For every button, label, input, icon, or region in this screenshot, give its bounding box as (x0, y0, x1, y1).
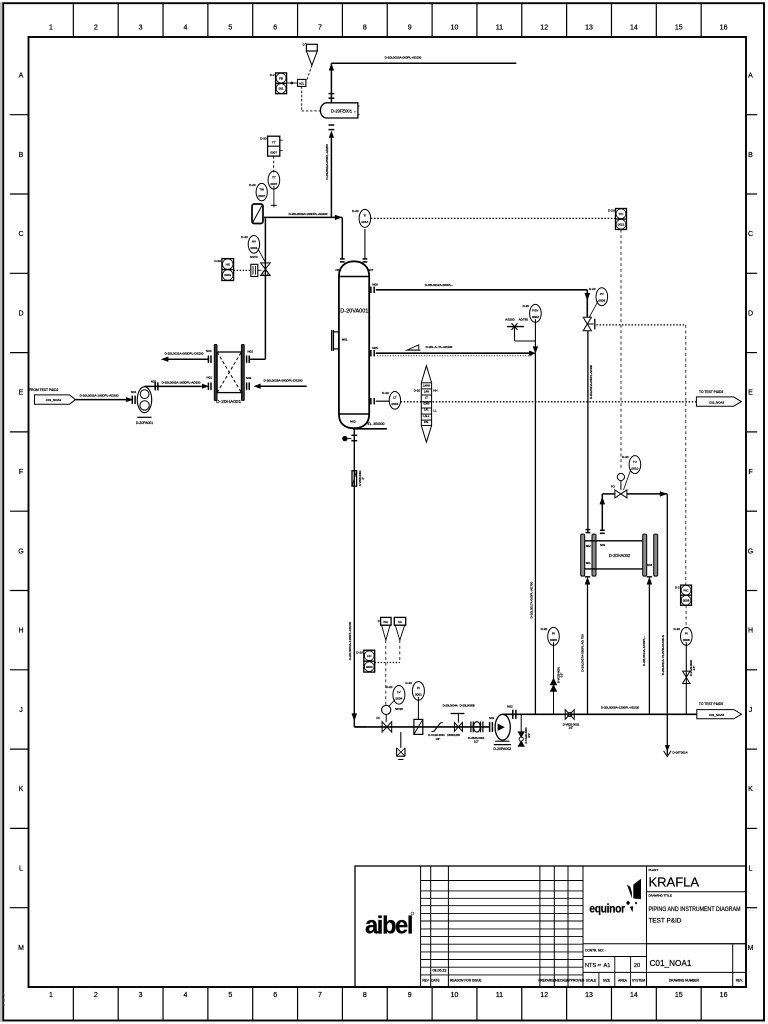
svg-text:11: 11 (496, 25, 503, 32)
svg-text:D-20: D-20 (386, 685, 393, 689)
svg-text:FB: FB (279, 76, 283, 80)
svg-text:08.06.22: 08.06.22 (433, 969, 447, 973)
signal UAL funnel to selector (375, 640, 400, 662)
inline sight glass (414, 719, 423, 734)
title block outline (355, 866, 746, 987)
svg-text:D-20: D-20 (541, 627, 548, 631)
svg-text:D: D (18, 310, 23, 317)
svg-text:B: B (19, 152, 24, 159)
svg-text:D-20L.A- PL-AD200: D-20L.A- PL-AD200 (426, 345, 453, 349)
svg-text:←: ← (354, 109, 358, 113)
pump discharge pipe D-20L0002A to exchanger (145, 379, 205, 390)
exchanger outlet line D-20L0021A (N04) (162, 349, 212, 363)
off-page connector FROM TEST P&ID2 C01_NOA2 (29, 388, 75, 404)
svg-text:5: 5 (228, 992, 232, 999)
svg-text:0006: 0006 (598, 299, 605, 303)
header isolation valve D-VB20-0002 (563, 710, 580, 730)
instrument circle LV-0004 (386, 685, 405, 711)
feed pipe D-20L0001A to pump (75, 393, 132, 401)
bottoms header left section (354, 726, 489, 728)
svg-text:D-20: D-20 (405, 681, 412, 685)
svg-text:H: H (748, 628, 753, 635)
svg-text:D-20HA001: D-20HA001 (216, 399, 241, 405)
svg-text:PI: PI (417, 686, 420, 690)
svg-text:N06: N06 (372, 282, 378, 286)
svg-text:D-20L0023A-060PL-AD200: D-20L0023A-060PL-AD200 (325, 144, 329, 180)
svg-text:14: 14 (630, 992, 638, 999)
svg-text:D-20L0008A-1200PL-AD200: D-20L0008A-1200PL-AD200 (601, 705, 640, 709)
svg-text:TT: TT (272, 175, 276, 179)
grid row letters right (748, 73, 754, 952)
HA002 N01 riser from header (580, 577, 590, 715)
svg-text:0010: 0010 (631, 466, 638, 470)
signal FB to solenoid (287, 82, 298, 84)
svg-text:FROM TEST P&ID2: FROM TEST P&ID2 (29, 388, 59, 392)
svg-text:LAL: LAL (424, 408, 429, 412)
svg-text:D-20: D-20 (622, 455, 629, 459)
svg-text:0008: 0008 (683, 598, 690, 602)
inline strainer (252, 204, 263, 224)
svg-text:TIC: TIC (619, 212, 625, 216)
svg-text:A: A (748, 73, 753, 80)
svg-text:K: K (748, 786, 753, 793)
vessel nozzle N07 and TI-0013 (363, 229, 374, 272)
overhead line drop to PV valve (585, 290, 589, 317)
grid column numbers bottom (49, 992, 728, 999)
instrument circle PI-0005 (541, 627, 560, 645)
svg-text:D-VB20-0001: D-VB20-0001 (468, 736, 485, 740)
svg-text:FC: FC (376, 716, 380, 720)
svg-text:HV: HV (252, 240, 257, 244)
instrument PIC-0008 shared display (675, 585, 692, 605)
svg-text:PLANT: PLANT (649, 868, 659, 872)
instrument circle TV-0010 (622, 455, 641, 490)
svg-text:LAH: LAH (424, 389, 429, 393)
svg-text:TW: TW (259, 187, 264, 191)
svg-text:16: 16 (720, 25, 728, 32)
pipe riser from exchanger to vessel feed (264, 217, 266, 359)
svg-text:15: 15 (675, 992, 683, 999)
svg-text:N04: N04 (647, 563, 652, 567)
svg-text:D-20: D-20 (523, 304, 530, 308)
solenoid box (298, 79, 306, 86)
PSV line down to bottoms junction (533, 319, 537, 353)
svg-text:M: M (748, 945, 754, 952)
instrument FB-001 panel (270, 73, 287, 94)
svg-text:0001: 0001 (224, 273, 231, 277)
svg-text:HH: HH (433, 388, 437, 392)
svg-text:REV.: REV. (736, 979, 743, 983)
svg-text:ACL: ACL (299, 81, 305, 85)
svg-text:D-2: D-2 (270, 73, 275, 77)
svg-text:A: A (19, 73, 24, 80)
svg-text:D: D (303, 43, 305, 47)
svg-text:PAL: PAL (424, 420, 429, 424)
vessel nozzle N06 vapour line D-05L0012A (371, 282, 587, 293)
svg-text:1600/1200: 1600/1200 (447, 733, 460, 737)
svg-text:1: 1 (49, 25, 53, 32)
svg-text:0004: 0004 (391, 402, 398, 406)
grid row ticks left strip (10, 115, 29, 908)
svg-text:PI: PI (685, 632, 688, 636)
svg-text:D-20L0002A-160DPL-AD200: D-20L0002A-160DPL-AD200 (162, 380, 201, 384)
off-page connector TO TEST P&ID3 C01_NOA3 (696, 390, 741, 406)
svg-text:CONTR. NO: -: CONTR. NO: - (585, 949, 606, 953)
svg-text:M: M (18, 945, 24, 952)
vent funnel with box (303, 43, 318, 66)
instrument circle PV-0006 (589, 287, 608, 317)
svg-text:0004: 0004 (395, 697, 402, 701)
svg-text:D-20: D-20 (589, 287, 596, 291)
svg-text:0007: 0007 (258, 194, 265, 198)
equinor logo box (583, 879, 746, 944)
svg-text:D-20L0014A-1000PL--: D-20L0014A-1000PL-- (642, 636, 646, 666)
svg-text:2: 2 (94, 992, 98, 999)
HA002 nozzle labels (586, 543, 653, 567)
svg-text:20: 20 (634, 963, 640, 969)
svg-text:N02: N02 (586, 544, 591, 548)
exchanger inlet flange N01 (202, 376, 212, 390)
plant box KRAFLA (647, 866, 747, 987)
svg-text:D-20: D-20 (414, 388, 421, 392)
svg-text:M01: M01 (342, 337, 348, 341)
svg-text:2: 2 (94, 25, 98, 32)
signal PIC to PI (685, 605, 687, 628)
drain line elbow arrow (352, 714, 366, 727)
svg-text:D-20: D-20 (249, 183, 256, 187)
svg-text:F: F (748, 469, 752, 476)
svg-text:0007: 0007 (270, 151, 277, 155)
drain stub blind (342, 436, 351, 441)
svg-text:C01_NOA5: C01_NOA5 (709, 713, 725, 717)
svg-text:D-20L0023A-060PL-AD200: D-20L0023A-060PL-AD200 (385, 55, 422, 59)
svg-text:D-20PA002: D-20PA002 (493, 747, 511, 751)
riser to flow element (325, 125, 334, 217)
instrument circle TW-0007 (249, 183, 267, 201)
svg-text:C01_NOA2: C01_NOA2 (46, 398, 62, 402)
pipe D-20L0003A to vessel N01 (264, 212, 342, 259)
signal PV valve to PIC (596, 324, 686, 326)
HA002 N04 riser from header (642, 577, 652, 715)
TV outlet to drain header (627, 492, 667, 755)
instrument circle HV-0001 (241, 235, 265, 263)
slope symbol (406, 345, 421, 350)
svg-text:KRAFLA: KRAFLA (649, 875, 700, 890)
instrument circle TT-0007 (268, 171, 280, 189)
scan edge artifact (1, 2, 4, 1022)
svg-text:DATE: DATE (431, 979, 439, 983)
control valve PV-0006 (583, 317, 595, 331)
svg-text:D-20L0003A-160DPL-AD200: D-20L0003A-160DPL-AD200 (289, 212, 328, 216)
svg-text:C: C (18, 231, 23, 238)
svg-text:D-20L0007A-060PL-AD 750: D-20L0007A-060PL-AD 750 (580, 634, 584, 672)
svg-text:C01_NOA1: C01_NOA1 (650, 959, 692, 968)
svg-text:N01: N01 (489, 716, 495, 720)
svg-text:HS: HS (226, 262, 230, 266)
svg-text:10: 10 (451, 25, 459, 32)
svg-text:N01: N01 (586, 561, 591, 565)
svg-text:7: 7 (318, 992, 322, 999)
svg-text:0.5": 0.5" (560, 673, 564, 678)
svg-text:8: 8 (363, 992, 367, 999)
svg-text:1/2": 1/2" (569, 726, 574, 730)
svg-text:3: 3 (139, 25, 143, 32)
svg-text:D-20L0021A-060DPL-DS200: D-20L0021A-060DPL-DS200 (165, 352, 204, 356)
svg-text:D-20L0017A-060PL-AD750: D-20L0017A-060PL-AD750 (529, 581, 533, 618)
svg-text:LALL: LALL (423, 414, 430, 418)
drawing title box (647, 894, 747, 944)
svg-text:0001: 0001 (415, 693, 422, 697)
svg-text:equinor: equinor (589, 904, 625, 916)
svg-text:TV: TV (633, 460, 638, 464)
svg-text:J: J (19, 707, 23, 714)
bottoms header right section D-20L0005A (535, 705, 696, 714)
svg-text:8: 8 (363, 25, 367, 32)
svg-text:D-20: D-20 (352, 209, 359, 213)
svg-text:LAHH: LAHH (423, 383, 430, 387)
svg-text:D-VC20-0001: D-VC20-0001 (428, 733, 445, 737)
svg-text:D-20L0026A-060DPL-DS200: D-20L0026A-060DPL-DS200 (264, 379, 303, 383)
pump D-20PA001 (136, 387, 153, 425)
svg-text:APPROVED: APPROVED (567, 979, 585, 983)
svg-text:1/2": 1/2" (474, 740, 479, 744)
svg-text:N02: N02 (248, 350, 254, 354)
instrument circle LT-0004 (382, 391, 400, 409)
thermowell connection (271, 186, 277, 207)
svg-text:D-20L0004A-1400PL-AD200: D-20L0004A-1400PL-AD200 (348, 621, 352, 660)
svg-text:0005: 0005 (424, 402, 430, 406)
pump suction flange N01 (489, 716, 495, 732)
vessel nozzle N05 bottoms line D-20L-A-PL-AD200 (371, 345, 533, 357)
grid row letters left (18, 73, 24, 952)
svg-text:PIC: PIC (684, 588, 690, 592)
bottoms drop leg D-20L0017A (529, 353, 535, 714)
svg-text:N03: N03 (246, 376, 252, 380)
svg-text:D-20VA001: D-20VA001 (340, 309, 368, 315)
signal TIC-0013 to TV-0010 (620, 230, 622, 471)
svg-text:J: J (749, 707, 753, 714)
instrument HS-0001 shared display (214, 259, 250, 281)
svg-text:FO: FO (611, 485, 616, 489)
svg-text:D-20: D-20 (673, 627, 680, 631)
svg-text:REASON FOR ISSUE: REASON FOR ISSUE (450, 979, 482, 983)
signal funnel to solenoid (307, 65, 312, 81)
svg-text:aibel: aibel (365, 912, 413, 940)
svg-text:D-20: D-20 (608, 209, 615, 213)
svg-text:0008: 0008 (683, 638, 690, 642)
svg-text:N04: N04 (206, 349, 212, 353)
svg-text:REV: REV (422, 979, 429, 983)
svg-text:D: D (748, 310, 753, 317)
instrument LIC-0004 shared display (356, 650, 374, 672)
grid column dividers bottom strip (73, 987, 701, 1021)
svg-text:D-20: D-20 (382, 391, 389, 395)
svg-text:D-20: D-20 (356, 650, 363, 654)
signal TI-0013 to TIC-0013 (371, 217, 616, 219)
svg-text:N07: N07 (368, 268, 374, 272)
svg-text:D-20L0004A: D-20L0004A (443, 704, 458, 708)
svg-text:9: 9 (408, 25, 412, 32)
svg-text:D: D (378, 619, 380, 623)
svg-text:NSTD: NSTD (250, 255, 258, 259)
svg-text:E: E (748, 390, 753, 397)
svg-text:11: 11 (496, 992, 503, 999)
instrument circle TI-0013 (352, 209, 371, 227)
instrument circle PI-0001 (405, 681, 424, 719)
alarm funnel UAL (394, 617, 405, 640)
PI root valve D-VG20-0002 (683, 642, 696, 714)
level valve LV-0004 with actuator (376, 705, 391, 732)
svg-text:EL. 300000: EL. 300000 (368, 422, 385, 426)
svg-text:15: 15 (675, 25, 683, 32)
svg-text:10: 10 (451, 992, 459, 999)
svg-text:UA: UA (398, 620, 402, 624)
svg-text:0002: 0002 (532, 315, 539, 319)
svg-text:H: H (18, 628, 23, 635)
svg-text:13: 13 (585, 25, 593, 32)
svg-text:TO TEST P&ID3: TO TEST P&ID3 (699, 390, 723, 394)
svg-text:N05: N05 (372, 346, 378, 350)
instrument TIC-0013 shared display (608, 209, 627, 230)
svg-text:D-05L0012A-060PL--: D-05L0012A-060PL-- (425, 283, 454, 287)
svg-text:AS200: AS200 (505, 318, 515, 322)
svg-text:N01: N01 (207, 376, 213, 380)
grid row ticks right strip (746, 115, 757, 908)
pump D-20PA002 (493, 714, 511, 751)
svg-text:D-20FE001: D-20FE001 (331, 108, 353, 113)
vessel nozzle N04 to LT-0004 (371, 398, 389, 404)
svg-text:E: E (19, 390, 24, 397)
off-page connector TO TEST P&ID5 C01_NOA5 (697, 702, 742, 719)
svg-text:6: 6 (273, 25, 277, 32)
svg-text:12: 12 (540, 992, 548, 999)
grid column numbers top (49, 25, 728, 32)
svg-text:B: B (748, 152, 753, 159)
pump suction flange N01 (131, 390, 137, 404)
pipe PV valve to exchanger N02 (588, 331, 593, 533)
svg-text:0013: 0013 (361, 220, 368, 224)
svg-text:AT: AT (598, 963, 602, 967)
svg-text:9: 9 (408, 992, 412, 999)
spool piece D-VB20-0001 (468, 722, 485, 744)
svg-text:L: L (749, 866, 753, 873)
svg-text:D-20: D-20 (214, 259, 221, 263)
svg-text:A1: A1 (604, 963, 611, 969)
svg-text:N02: N02 (350, 419, 356, 423)
control valve TV-0010 with actuator (611, 473, 627, 498)
svg-text:LL: LL (433, 409, 437, 413)
svg-text:K: K (19, 786, 24, 793)
manway M01 (332, 330, 348, 351)
instrument circle PI-0008 (673, 627, 692, 645)
level alarm stack LAHH LAH LAL LALL (414, 366, 438, 443)
vessel bottom N02 and skirt elevation (350, 419, 387, 428)
PI-0005 root with check valve D-VG20-0001 (550, 642, 563, 714)
svg-text:0004: 0004 (366, 665, 373, 669)
svg-text:0.5": 0.5" (692, 666, 696, 671)
svg-text:0013: 0013 (618, 222, 625, 226)
utility connection AS200 AD750 (505, 318, 535, 341)
level signal to off-page C01_NOA3 (401, 401, 697, 403)
svg-text:1: 1 (49, 992, 53, 999)
vessel nozzle N01 flange (335, 259, 344, 272)
svg-text:0001: 0001 (250, 246, 257, 250)
svg-text:D-20L0001A-160DPL-AD200: D-20L0001A-160DPL-AD200 (80, 393, 119, 397)
svg-text:0005: 0005 (550, 638, 557, 642)
line class break D-20L0004A / D-20L0005B (443, 704, 475, 738)
signal TT panel to TT transmitter (273, 156, 275, 174)
svg-text:LT: LT (425, 396, 428, 400)
svg-text:N03: N03 (600, 543, 605, 547)
HA002 N02 inlet flange (586, 530, 591, 533)
svg-text:3/4": 3/4" (527, 733, 531, 738)
flow element D-20FE001 (320, 103, 359, 118)
svg-text:PIPING AND INSTRUMENT DIAGRAM: PIPING AND INSTRUMENT DIAGRAM (649, 906, 741, 913)
svg-text:D-2: D-2 (675, 585, 680, 589)
valve HV-0001 (251, 263, 270, 277)
svg-text:F: F (19, 469, 23, 476)
svg-text:SIZE: SIZE (603, 979, 610, 983)
svg-text:NTS: NTS (585, 963, 596, 969)
svg-text:LV: LV (397, 690, 401, 694)
svg-text:G: G (18, 548, 23, 555)
vessel drain line D-20L0004A drop (351, 428, 357, 721)
svg-text:DRAWING NUMBER: DRAWING NUMBER (669, 979, 700, 983)
svg-text:4: 4 (184, 25, 188, 32)
drain line label and outfall arrow D-00T0014 (661, 635, 688, 757)
svg-text:13: 13 (585, 992, 593, 999)
svg-text:3: 3 (139, 992, 143, 999)
svg-text:D-00T0014: D-00T0014 (673, 751, 688, 755)
svg-text:D-20: D-20 (241, 235, 248, 239)
svg-text:C: C (748, 231, 753, 238)
svg-text:6: 6 (273, 992, 277, 999)
svg-text:PSV: PSV (532, 309, 539, 313)
svg-text:001: 001 (279, 87, 284, 91)
riser above flow element to header (329, 63, 335, 102)
svg-text:G: G (748, 548, 753, 555)
svg-text:D-20L0005B: D-20L0005B (460, 704, 475, 708)
svg-text:LIC: LIC (367, 654, 373, 658)
scale row (583, 949, 746, 988)
signal solenoid to flow element (302, 86, 321, 111)
pump discharge to header (503, 705, 536, 719)
svg-text:N01: N01 (131, 390, 137, 394)
svg-text:16: 16 (720, 992, 728, 999)
svg-text:14: 14 (630, 25, 638, 32)
svg-text:LT: LT (393, 396, 396, 400)
svg-text:1/4": 1/4" (436, 737, 441, 741)
drain line label (348, 621, 352, 660)
signal PAL funnel to LV actuator (385, 640, 387, 704)
signal drop to PIC-0008 (685, 325, 687, 585)
drain tundish (397, 732, 405, 759)
revision table bottom labels (422, 979, 585, 983)
svg-text:PV: PV (600, 292, 605, 296)
revision table (421, 866, 583, 987)
svg-text:L: L (19, 866, 23, 873)
svg-text:D-VB20-0004: D-VB20-0004 (358, 470, 362, 486)
svg-text:2": 2" (361, 477, 365, 479)
junction arrow into drop leg (530, 351, 536, 355)
svg-text:TT: TT (272, 141, 276, 145)
exchanger inlet line D-20L0026A (N03) (246, 376, 307, 390)
heat exchanger D-20HA002 (581, 534, 658, 576)
svg-text:SCALE: SCALE (586, 979, 596, 983)
svg-text:4: 4 (184, 992, 188, 999)
svg-text:12: 12 (540, 25, 548, 32)
svg-text:N02: N02 (507, 705, 513, 709)
